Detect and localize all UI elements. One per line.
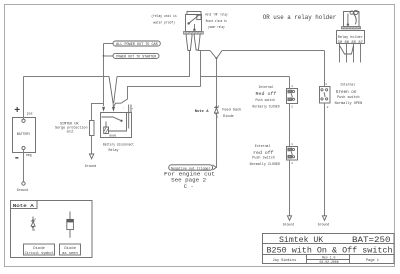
note A legend box	[11, 201, 93, 258]
coil return drop	[200, 51, 202, 87]
svg-text:Diode: Diode	[223, 114, 234, 119]
svg-text:+: +	[14, 105, 20, 116]
svg-text:Simtek UK: Simtek UK	[279, 235, 323, 245]
negative out trigger flag	[169, 165, 213, 170]
contact	[102, 117, 122, 121]
wire V-tap into relay	[109, 77, 113, 107]
green on wire top	[324, 51, 326, 87]
svg-text:(relay unit is: (relay unit is	[151, 14, 177, 19]
svg-text:water proof): water proof)	[153, 20, 175, 25]
svg-text:BAT=250: BAT=250	[352, 236, 391, 245]
svg-text:B250 with On & Off switch: B250 with On & Off switch	[267, 246, 393, 256]
svg-text:Battery disconnect: Battery disconnect	[103, 143, 134, 148]
svg-text:Relay: Relay	[109, 148, 119, 153]
relay holder box	[337, 31, 365, 44]
label flag POWER OUT TO STARTER	[104, 55, 114, 57]
svg-text:Diode: Diode	[64, 246, 76, 251]
wire out labels riser	[103, 44, 105, 107]
svg-text:Push switch: Push switch	[252, 156, 274, 161]
holder pins	[339, 44, 341, 63]
svg-text:OR use a relay holder: OR use a relay holder	[263, 14, 337, 21]
svg-text:Red off: Red off	[256, 91, 277, 97]
svg-text:Diode: Diode	[33, 246, 45, 251]
label flag ALL POWER OUT TO CAR	[104, 43, 114, 45]
svg-text:Ground: Ground	[283, 222, 295, 226]
svg-text:Note A: Note A	[195, 110, 209, 114]
battery disconnect relay K1	[101, 113, 132, 138]
surge protection unit R1	[92, 104, 104, 121]
wire battery negative down	[23, 150, 25, 182]
legend labels	[24, 244, 55, 255]
hold relay pin funnels	[186, 34, 200, 50]
svg-text:Ground: Ground	[318, 222, 330, 226]
wire S2 to ground	[289, 160, 291, 216]
svg-text:For engine cut: For engine cut	[164, 172, 215, 178]
svg-text:Page 1: Page 1	[366, 259, 379, 263]
svg-text:02-02-2006: 02-02-2006	[320, 260, 339, 264]
wire battery feed to relay pin riser	[117, 51, 190, 77]
ground (battery)	[22, 182, 25, 185]
switch feed wire	[201, 76, 290, 78]
svg-text:Green on: Green on	[336, 89, 357, 95]
legend diode circuit symbol	[31, 217, 35, 231]
svg-text:Rev 1.0: Rev 1.0	[322, 255, 335, 259]
svg-text:C -: C -	[184, 184, 194, 190]
coil feed wire from hold relay	[128, 87, 201, 100]
svg-text:Circuit symbol: Circuit symbol	[25, 251, 55, 256]
relay symbol above holder	[344, 10, 360, 26]
svg-text:Ground: Ground	[17, 188, 29, 192]
svg-text:red off: red off	[253, 150, 274, 156]
svg-text:Push switch: Push switch	[256, 98, 276, 103]
svg-text:30 86 85 87: 30 86 85 87	[338, 40, 364, 44]
svg-text:Internal: Internal	[259, 85, 274, 90]
svg-text:See page 2: See page 2	[171, 178, 206, 184]
svg-text:POWER OUT TO STARTER: POWER OUT TO STARTER	[116, 56, 156, 60]
wire diode to flag	[216, 114, 218, 168]
coil wiring	[109, 113, 127, 132]
ground (green chain)	[322, 216, 326, 221]
svg-text:External: External	[255, 144, 271, 149]
hold ON relay K2	[186, 12, 202, 32]
svg-text:Mount close to: Mount close to	[206, 19, 227, 24]
wire battery positive up	[23, 77, 25, 120]
svg-text:ALL POWER OUT TO CAR: ALL POWER OUT TO CAR	[116, 43, 158, 47]
wire S3 to ground	[324, 103, 326, 216]
wire S1 to S2	[289, 104, 291, 147]
holder connector strip	[342, 27, 361, 29]
external red off push switch S2	[287, 147, 298, 161]
ground (red chain)	[287, 216, 291, 221]
ground (surge unit)	[89, 154, 93, 159]
feedback diode D1	[214, 106, 218, 114]
wire battery feed horizontal	[24, 76, 110, 78]
svg-text:B080: B080	[110, 135, 117, 138]
svg-text:unit: unit	[67, 129, 74, 134]
svg-text:BATTERY: BATTERY	[17, 132, 30, 136]
svg-text:Ground: Ground	[85, 164, 97, 168]
coil box	[104, 127, 109, 134]
svg-text:Normally CLOSED: Normally CLOSED	[253, 105, 280, 110]
svg-text:power relay: power relay	[208, 25, 224, 30]
coil wire with V dip	[197, 50, 210, 52]
svg-text:neg: neg	[26, 153, 32, 157]
battery B1	[13, 118, 36, 153]
svg-text:pos: pos	[27, 111, 33, 115]
svg-text:Note A: Note A	[13, 204, 34, 209]
svg-text:Hold 'ON' relay: Hold 'ON' relay	[205, 13, 227, 18]
svg-text:Push switch: Push switch	[337, 95, 360, 100]
internal red off push switch S1	[289, 77, 291, 89]
svg-text:Internal: Internal	[340, 82, 355, 87]
trigger drop wire	[216, 59, 218, 107]
svg-text:Feed back: Feed back	[222, 108, 241, 113]
hold relay connector strip	[184, 32, 204, 35]
svg-text:as seen: as seen	[62, 252, 77, 256]
svg-text:Jay Simkins: Jay Simkins	[273, 258, 297, 263]
svg-text:Normally CLOSED: Normally CLOSED	[250, 162, 281, 167]
legend diode as seen	[67, 212, 74, 238]
svg-text:Normally OPEN: Normally OPEN	[335, 101, 363, 106]
svg-text:-: -	[14, 153, 21, 165]
title block	[263, 234, 395, 264]
internal green on push switch S3	[320, 87, 331, 104]
